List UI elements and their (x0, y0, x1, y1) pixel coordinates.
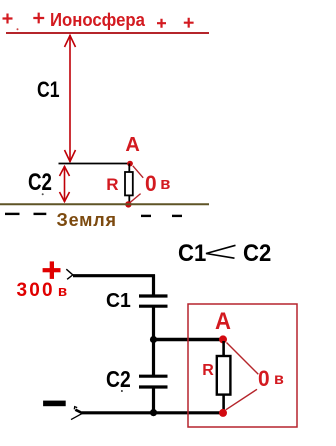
stray dot near line start (17, 28, 19, 30)
bottom node dot (circuit) (219, 409, 227, 417)
capacitor C2 plates (139, 376, 168, 387)
ionosphere charge plus 1 (3, 14, 13, 24)
wire: resistor to bottom node (circuit) (222, 395, 225, 412)
voltmeter lead from ground (top) (130, 194, 140, 203)
ionosphere charge plus 2 (33, 13, 44, 24)
resistor R body (top) (125, 172, 133, 195)
resistor R body (circuit) (217, 356, 231, 395)
capacitor C1 label (circuit) (106, 291, 131, 311)
earth label Земля (57, 211, 117, 229)
earth ground line (0, 203, 209, 205)
wire: top plate of earth capacitor (59, 163, 131, 165)
label C1 (top spacing) (37, 79, 60, 101)
wire: down to capacitor C1 (152, 275, 155, 296)
ionosphere charge plus 4 (184, 18, 194, 28)
comparison symbol < (206, 245, 236, 258)
junction node dot (top rail) (150, 336, 157, 343)
comparison label C1 (178, 242, 206, 266)
wire: C1 to junction (152, 307, 155, 341)
wire: A to resistor (circuit) (222, 341, 225, 357)
bottom junction node dot (150, 409, 157, 416)
C1 spacing arrow (double headed) (65, 35, 76, 162)
node A label (circuit) (215, 310, 231, 334)
wire: junction to node A (154, 338, 222, 341)
wire: resistor to ground (top) (128, 196, 130, 205)
label Ионосфера (50, 11, 145, 29)
wire: bottom rail (82, 411, 221, 414)
battery plus terminal symbol (43, 261, 61, 279)
battery minus terminal symbol (43, 401, 66, 407)
earth dash 4 (172, 215, 182, 217)
wire: C2 to bottom junction (152, 388, 155, 414)
node A label (top) (125, 135, 139, 155)
earth dash 2 (34, 213, 47, 215)
voltmeter lead from A (circuit) (227, 343, 259, 375)
ionosphere line (6, 32, 209, 34)
node A dot (top) (127, 161, 133, 167)
voltmeter reading 0 в (top) (145, 173, 157, 195)
wire: node A to resistor (top) (128, 164, 130, 174)
C2 spacing arrow (double headed) (60, 166, 70, 202)
wire: junction down to capacitor C2 (152, 340, 155, 376)
ground node dot (top) (125, 201, 131, 207)
resistor R label (circuit) (202, 363, 214, 379)
earth dash 1 (5, 213, 20, 215)
node A dot (circuit) (219, 335, 227, 343)
battery voltage label 300в (17, 281, 68, 300)
comparison label C2 (243, 242, 271, 266)
label C2 (top spacing) (28, 171, 52, 195)
resistor R label (top) (106, 176, 118, 193)
capacitor C1 plates (139, 296, 168, 306)
stray dot near C2 (circuit) (121, 390, 123, 392)
input terminal chevron (bottom) (71, 407, 83, 420)
measurement red box (188, 304, 297, 427)
ionosphere charge plus 3 (157, 19, 166, 28)
stray dot under C2 (42, 193, 44, 195)
capacitor C2 label (circuit) (106, 368, 131, 391)
voltmeter lead from bottom node (circuit) (226, 389, 257, 410)
earth dash 3 (141, 215, 151, 217)
input terminal chevron (top) (66, 269, 73, 279)
voltmeter reading 0 в (circuit) (258, 368, 270, 390)
voltmeter lead from A (top) (133, 166, 143, 178)
wire: plus terminal to C1 branch (73, 274, 155, 277)
